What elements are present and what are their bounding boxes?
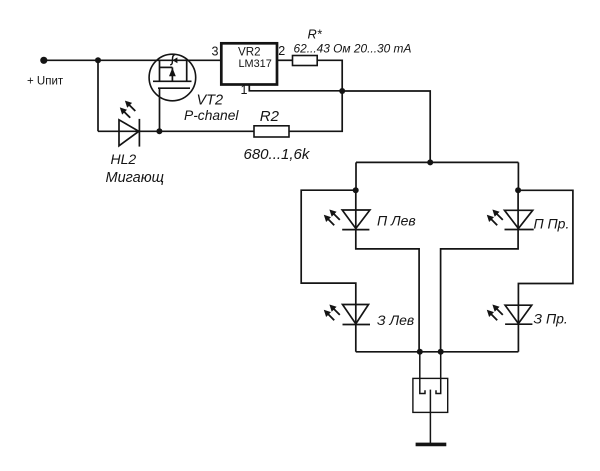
transistor VT2 left vertical (source lead) — [159, 60, 161, 81]
wire: node E through П Лев down, right, down to bottom rail — [356, 190, 419, 352]
wire: top rail of lamp bridge — [356, 161, 518, 163]
LED З Пр cathode bar — [505, 323, 532, 325]
svg-text:62...43 Ом 20...30 mA: 62...43 Ом 20...30 mA — [294, 42, 412, 56]
LED П Лев triangle — [342, 210, 370, 229]
wire: down to HL2 anode — [97, 60, 99, 131]
node D (top rail center) — [427, 159, 433, 165]
svg-text:Мигающ: Мигающ — [106, 170, 164, 186]
transistor VT2 substrate link — [160, 66, 173, 68]
svg-text:VT2: VT2 — [197, 93, 224, 109]
LED З Лев cathode bar — [343, 324, 371, 326]
transistor VT2 substrate arrow — [169, 68, 176, 76]
transistor VT2 channel bar — [153, 80, 192, 82]
wire: junction to lamp cluster — [342, 91, 430, 162]
svg-text:П Пр.: П Пр. — [534, 216, 570, 232]
svg-text:П Лев: П Лев — [377, 213, 416, 229]
svg-text:VR2: VR2 — [238, 46, 261, 59]
svg-text:1: 1 — [241, 83, 248, 97]
wire: rail right corner down — [517, 162, 519, 190]
wire: VR2 pin 2 to R* — [277, 59, 293, 61]
wire: rail left corner down — [355, 162, 357, 190]
transistor VT2 gate bar — [158, 87, 190, 89]
LED З Пр triangle — [505, 305, 532, 323]
resistor R2 — [254, 126, 289, 137]
svg-text:P-chanel: P-chanel — [184, 108, 239, 123]
node B (gate/HL2 junction) — [156, 128, 162, 134]
node A (supply junction) — [95, 57, 101, 63]
wire: junction down to R2 right — [289, 91, 342, 131]
LED З Лев arrows — [324, 310, 334, 320]
wire: gate lead down to HL2 node — [159, 88, 161, 131]
svg-text:З Пр.: З Пр. — [534, 311, 568, 327]
node F (right branch junction) — [515, 187, 521, 193]
svg-text:680...1,6k: 680...1,6k — [244, 146, 311, 163]
svg-text:+ Uпит: + Uпит — [27, 76, 64, 88]
svg-text:LM317: LM317 — [239, 58, 272, 70]
node E (left branch junction) — [353, 187, 359, 193]
svg-text:R2: R2 — [260, 108, 280, 125]
transistor VT2 right vertical (drain lead) — [186, 60, 188, 81]
resistor R* — [293, 56, 318, 66]
LED З Пр arrows — [487, 310, 497, 320]
LED П Пр triangle — [505, 210, 533, 228]
node H (bottom rail right pin) — [438, 349, 444, 355]
connector X1 box — [413, 378, 448, 412]
LED HL2 arrows — [120, 107, 130, 117]
terminal + Uпит — [40, 57, 47, 64]
regulator VR2 LM317 box — [221, 43, 277, 84]
svg-text:R*: R* — [308, 27, 323, 42]
LED П Пр cathode bar — [505, 229, 534, 231]
transistor VT2 body circle — [149, 54, 196, 101]
wire: outer left branch through З Лев to bottom rail — [301, 190, 356, 352]
transistor VT2 substrate lead — [171, 67, 173, 81]
wire: R* to junction corner — [317, 60, 342, 91]
LED З Лев triangle — [343, 305, 369, 324]
wire: outer right branch through З Пр to bottom rail — [518, 190, 573, 351]
LED П Лев arrows — [324, 215, 334, 225]
transistor VT2 source squiggle — [170, 55, 174, 65]
wire: node F through П Пр down, left, down to bottom rail — [441, 190, 518, 351]
wire: left pin into connector — [420, 352, 425, 394]
wire: VR2 pin 1 to junction — [249, 85, 342, 91]
svg-text:2: 2 — [278, 44, 285, 58]
wire: connector common to ground — [429, 390, 431, 445]
node G (bottom rail left pin) — [417, 349, 423, 355]
LED П Лев cathode bar — [342, 229, 369, 231]
svg-text:З Лев: З Лев — [377, 312, 414, 328]
LED HL2 cathode bar — [138, 119, 140, 147]
LED HL2 triangle — [119, 120, 139, 146]
LED П Пр arrows — [487, 215, 497, 225]
svg-text:3: 3 — [212, 45, 219, 59]
ground — [416, 443, 447, 447]
wire: node to HL2 anode and on to R2 — [98, 130, 254, 132]
transistor VT2 source arrow — [173, 57, 178, 63]
svg-text:HL2: HL2 — [111, 151, 137, 167]
wire: bottom rail — [356, 351, 519, 353]
node C (feedback junction) — [339, 88, 345, 94]
wire: supply rail to VR2 pin 3 — [44, 59, 222, 61]
wire: right pin into connector — [436, 352, 441, 394]
